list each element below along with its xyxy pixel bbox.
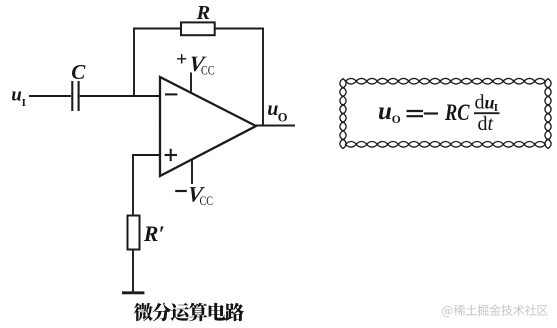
svg-text:t: t [488,113,494,135]
svg-text:C: C [71,60,86,84]
svg-text:u: u [267,98,278,120]
ground [122,291,144,294]
wire feedback right vertical [262,28,264,126]
svg-text:O: O [278,111,288,125]
op-amp plus sign [165,154,178,156]
svg-text:I: I [494,102,498,114]
formula u_O = -RC du_I/dt [378,91,500,135]
svg-text:d: d [475,91,485,113]
svg-text:d: d [478,113,488,135]
wire R' to ground [132,250,134,293]
svg-text:O: O [392,114,401,126]
wire capacitor to inverting input [80,95,160,97]
wire top feedback left segment [133,28,181,30]
wire input u_I to capacitor [29,95,71,97]
svg-text:CC: CC [200,193,214,208]
wire top feedback right segment [215,28,264,30]
resistor R' [128,216,140,250]
wire feedback left vertical [133,28,135,96]
wire noninverting vertical to R' [132,154,134,215]
formula box chain border [340,78,551,148]
capacitor C [71,81,73,111]
svg-text:CC: CC [201,63,215,78]
op-amp minus sign [165,93,177,95]
svg-text:u: u [11,85,22,106]
watermark @稀土掘金技术社区 [442,304,548,317]
wire noninverting input horizontal [133,154,160,156]
wire -Vcc power pin [191,159,193,184]
wire +Vcc power pin [190,73,192,94]
caption 微分运算电路 [134,303,244,322]
svg-text:R′: R′ [143,221,165,246]
svg-text:R: R [196,2,211,24]
resistor R [181,22,215,35]
wire output [256,125,295,127]
op-amp U1 [160,77,256,176]
svg-text:+: + [176,48,187,70]
svg-text:I: I [22,97,26,109]
label -Vcc [175,190,187,192]
svg-text:RC: RC [444,100,470,125]
svg-text:u: u [378,98,392,125]
